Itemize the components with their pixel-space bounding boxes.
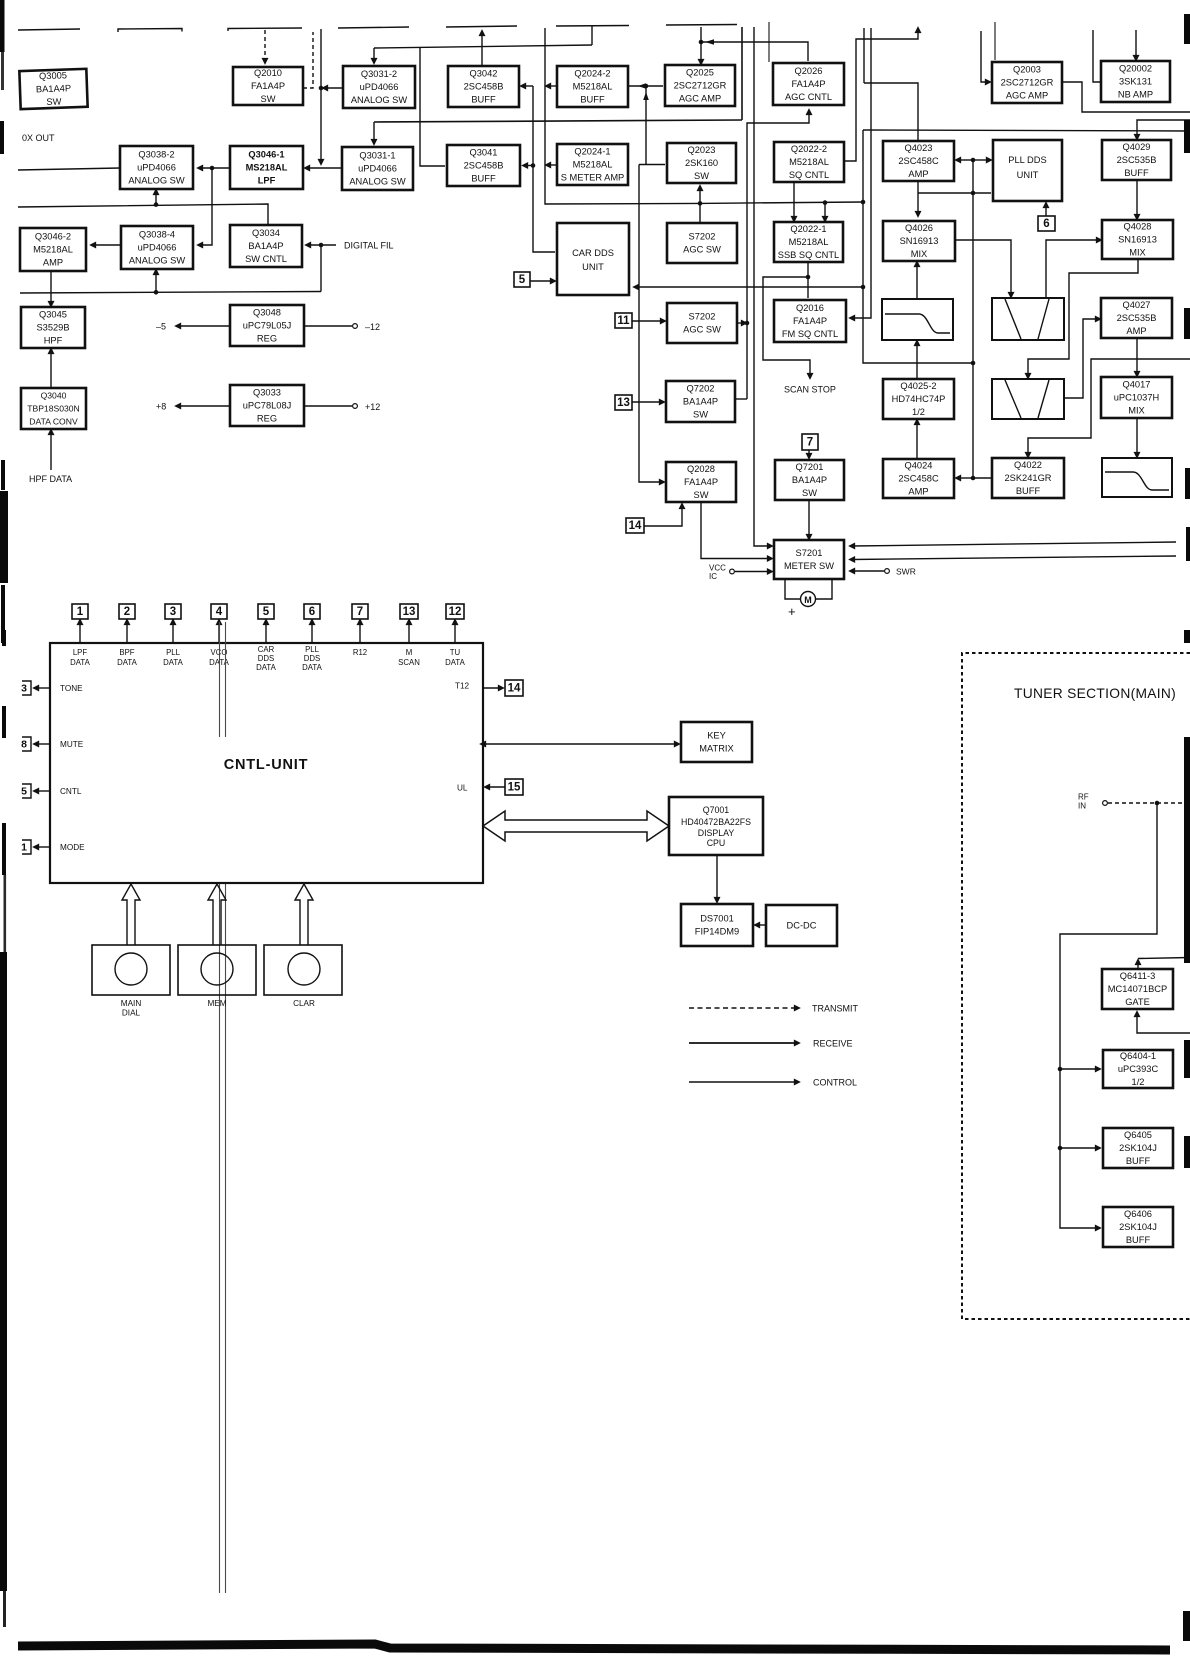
wire MUTE out xyxy=(36,743,50,745)
junction x212 y168 xyxy=(210,166,215,171)
scan mark right 8 xyxy=(1184,1040,1190,1078)
wire L1 up at x742 xyxy=(741,27,743,120)
svg-text:RECEIVE: RECEIVE xyxy=(813,1039,853,1049)
svg-text:Q2024-2: Q2024-2 xyxy=(574,68,610,78)
wire branch down to Q3038-4 right xyxy=(200,168,212,245)
hollow arrow MAIN/DIAL xyxy=(122,884,140,945)
svg-text:MODE: MODE xyxy=(60,843,85,852)
block Q2003 AGC amp xyxy=(992,62,1062,103)
svg-text:GATE: GATE xyxy=(1125,997,1150,1007)
wire -12 input xyxy=(304,325,352,327)
wire pin 13 up arrow xyxy=(408,622,410,643)
svg-text:uPD4066: uPD4066 xyxy=(138,242,177,252)
svg-text:–12: –12 xyxy=(365,322,380,332)
wire +12 input xyxy=(304,405,352,407)
wire right edge into Q4029 xyxy=(1137,120,1190,137)
svg-text:Q4028: Q4028 xyxy=(1124,221,1152,231)
block KEY MATRIX xyxy=(681,722,752,762)
ref 3 top xyxy=(165,604,181,619)
svg-text:12: 12 xyxy=(449,606,462,618)
wire 13 into Q7202 xyxy=(632,401,662,403)
wire torn top bus seg5 xyxy=(446,26,517,27)
wire Q2022-2 down to Q2022-1 xyxy=(793,182,795,219)
block Q3031-1 analog switch xyxy=(342,147,413,190)
svg-text:uPD4066: uPD4066 xyxy=(137,162,176,172)
svg-text:DATA: DATA xyxy=(117,658,137,667)
svg-text:2SK160: 2SK160 xyxy=(685,158,718,168)
ref 12 top xyxy=(446,604,464,619)
wire into Q20002 left xyxy=(1093,30,1101,82)
svg-text:BUFF: BUFF xyxy=(1126,1235,1151,1245)
svg-text:CPU: CPU xyxy=(707,838,726,848)
svg-text:M5218AL: M5218AL xyxy=(33,244,73,254)
svg-text:M5218AL: M5218AL xyxy=(789,157,829,167)
wire pin 7 up arrow xyxy=(359,622,361,643)
wire Q4027 down to Q4017 xyxy=(1136,338,1138,374)
block Q4027 amp xyxy=(1101,298,1172,338)
block Q7001 display CPU xyxy=(669,797,763,855)
svg-text:DISPLAY: DISPLAY xyxy=(698,828,735,838)
svg-text:Q4022: Q4022 xyxy=(1014,460,1042,470)
wire stub x864 xyxy=(863,28,865,83)
scan mark left 6 xyxy=(2,706,6,738)
connector stub CNTL xyxy=(22,784,31,798)
ref 1 top xyxy=(72,604,88,619)
block DC-DC converter xyxy=(766,905,837,946)
svg-text:TRANSMIT: TRANSMIT xyxy=(812,1004,859,1014)
block Q2026 AGC control xyxy=(773,63,844,105)
svg-text:UNIT: UNIT xyxy=(1017,170,1039,180)
ref 6 xyxy=(1038,216,1055,231)
wire Q3031-1 to Q3046-1 xyxy=(307,167,342,169)
svg-text:Q7201: Q7201 xyxy=(796,462,824,472)
svg-text:BUFF: BUFF xyxy=(1124,168,1149,178)
svg-text:1/2: 1/2 xyxy=(912,407,925,417)
wire x646 down xyxy=(645,86,647,165)
junction x646 y86 xyxy=(644,84,649,89)
svg-text:Q4017: Q4017 xyxy=(1123,379,1151,389)
block S7202 AGC switch upper xyxy=(667,223,737,263)
svg-text:Q2010: Q2010 xyxy=(254,68,282,78)
svg-text:15: 15 xyxy=(508,782,521,794)
wire net E vertical x747 xyxy=(747,112,809,399)
block Q7202 switch xyxy=(666,381,735,422)
svg-text:1: 1 xyxy=(77,606,84,618)
svg-text:DATA CONV: DATA CONV xyxy=(29,416,78,426)
wire Q7201 down to S7201 xyxy=(808,500,810,537)
scan mark left 2 xyxy=(1,460,5,490)
svg-text:CAR DDS: CAR DDS xyxy=(572,248,614,258)
block Q3041 buffer xyxy=(447,145,520,186)
block Q4028 mixer xyxy=(1102,220,1173,259)
wire dashed Q2010 right to top xyxy=(303,32,313,88)
block Q2024-2 buffer xyxy=(557,66,628,107)
wire up into Q3038-2 bottom xyxy=(155,192,157,205)
svg-text:Q3040: Q3040 xyxy=(41,390,67,400)
svg-text:DATA: DATA xyxy=(302,663,322,672)
wire 6 up into PLL DDS xyxy=(1045,205,1047,216)
svg-text:Q2028: Q2028 xyxy=(687,464,715,474)
svg-text:2SC458B: 2SC458B xyxy=(464,160,504,170)
svg-text:LPF: LPF xyxy=(258,175,276,185)
wire trap2 to Q4027 xyxy=(1064,319,1098,398)
wire scan stop branch xyxy=(763,277,810,376)
svg-text:Q7001: Q7001 xyxy=(703,805,730,815)
block CAR DDS unit xyxy=(557,223,629,295)
svg-text:DATA: DATA xyxy=(70,658,90,667)
svg-text:MUTE: MUTE xyxy=(60,740,84,749)
block Q4024 amp xyxy=(883,459,954,498)
wire x973 vertical xyxy=(972,160,974,478)
wire stub x871 down to Q2016 xyxy=(852,28,871,318)
svg-text:Q4024: Q4024 xyxy=(905,460,933,470)
wire Q2024-1 output into net H xyxy=(548,164,557,166)
svg-text:HD74HC74P: HD74HC74P xyxy=(892,394,946,404)
scan mark right 10 xyxy=(1183,1611,1190,1641)
svg-text:MIX: MIX xyxy=(1129,247,1146,257)
wire Q4025-2 up to filter xyxy=(916,343,918,379)
svg-text:BUFF: BUFF xyxy=(1126,1156,1151,1166)
wire into Q3041 right edge xyxy=(525,165,533,167)
svg-text:AMP: AMP xyxy=(1126,326,1146,336)
ref 14 right xyxy=(505,680,523,696)
wire y47 horizontal xyxy=(374,45,592,48)
svg-text:FIP14DM9: FIP14DM9 xyxy=(695,926,739,936)
tuner section dashed border xyxy=(962,653,1190,1319)
terminal RF IN xyxy=(1103,801,1108,806)
wire x533 vertical xyxy=(533,86,555,252)
svg-text:AMP: AMP xyxy=(908,169,928,179)
wire digital fil into Q3034 xyxy=(308,244,336,246)
wire 15 into UL xyxy=(487,786,505,788)
svg-text:MATRIX: MATRIX xyxy=(699,743,733,753)
svg-text:uPC393C: uPC393C xyxy=(1118,1064,1159,1074)
ref 14 lower xyxy=(626,518,644,533)
wire -5 output xyxy=(178,325,230,327)
wire into Q2025 top xyxy=(700,42,702,62)
ref 7 xyxy=(802,434,818,450)
svg-text:2SC458C: 2SC458C xyxy=(898,473,939,483)
svg-text:Q6405: Q6405 xyxy=(1124,1130,1152,1140)
block CNTL-UNIT xyxy=(50,643,483,883)
svg-text:T12: T12 xyxy=(455,682,470,691)
svg-text:Q6411-3: Q6411-3 xyxy=(1120,971,1156,981)
svg-text:8: 8 xyxy=(21,739,27,751)
junction net H x700 xyxy=(698,201,703,206)
svg-text:AGC AMP: AGC AMP xyxy=(679,93,721,103)
svg-text:Q6406: Q6406 xyxy=(1124,1209,1152,1219)
junction L2 x973 y363 xyxy=(971,361,976,366)
svg-text:6: 6 xyxy=(309,606,315,618)
svg-text:Q3031-2: Q3031-2 xyxy=(361,69,397,79)
svg-text:TU: TU xyxy=(450,648,461,657)
block Q4017 mixer xyxy=(1101,377,1172,418)
wire Q2022-1 down to Q2016 xyxy=(807,262,809,298)
wire CNTL out xyxy=(36,790,50,792)
hollow arrow CLAR xyxy=(295,884,313,945)
scan artifact line a xyxy=(219,622,221,737)
svg-text:MEM: MEM xyxy=(207,999,226,1008)
ref 13 xyxy=(615,395,632,410)
wire HPF DATA up to Q3040 xyxy=(50,432,52,470)
wire branch into Q6405 xyxy=(1060,1147,1098,1149)
terminal -12 xyxy=(353,324,358,329)
svg-text:TONE: TONE xyxy=(60,684,83,693)
wire trap1 up to Q4028 xyxy=(1046,240,1099,298)
wire down into S7202 upper top xyxy=(699,203,701,222)
svg-text:HPF DATA: HPF DATA xyxy=(29,474,72,484)
svg-text:S7201: S7201 xyxy=(796,548,823,558)
legend transmit arrow xyxy=(689,1007,797,1009)
svg-text:Q2003: Q2003 xyxy=(1013,64,1041,74)
wire right edge into Q6411-3 bottom xyxy=(1137,1014,1190,1033)
wire Q4023 down to Q4026 xyxy=(917,181,919,214)
wire pin 2 up arrow xyxy=(126,622,128,643)
block Q6404-1 comparator xyxy=(1103,1050,1173,1088)
scan mark left 3 xyxy=(0,491,8,583)
svg-text:3: 3 xyxy=(21,683,27,695)
block Q4022 buffer xyxy=(992,458,1064,498)
svg-text:DDS: DDS xyxy=(304,654,320,663)
svg-text:–5: –5 xyxy=(156,322,166,332)
svg-text:Q3046-1: Q3046-1 xyxy=(248,149,284,159)
svg-text:AGC AMP: AGC AMP xyxy=(1006,90,1048,100)
scan mark right 5 xyxy=(1186,527,1190,561)
wire L1 down into Q3031-1 top xyxy=(373,122,375,142)
svg-text:HPF: HPF xyxy=(44,335,63,345)
svg-text:BUFF: BUFF xyxy=(1016,486,1041,496)
svg-text:Q2026: Q2026 xyxy=(795,66,823,76)
svg-text:MC14071BCP: MC14071BCP xyxy=(1108,984,1167,994)
svg-text:METER SW: METER SW xyxy=(784,561,834,571)
block Q2010 switch xyxy=(233,67,303,105)
svg-text:BUFF: BUFF xyxy=(471,94,496,104)
wire 5 into CAR DDS xyxy=(530,280,553,282)
svg-text:M: M xyxy=(804,595,812,605)
wire x646 into Q2023 left xyxy=(639,164,665,166)
filter response block lower right xyxy=(1102,458,1172,497)
wire Q4023 PLL link right xyxy=(973,159,989,161)
wire Q6411-3 top line xyxy=(1138,958,1190,959)
svg-text:2SK104J: 2SK104J xyxy=(1119,1143,1157,1153)
svg-text:Q3048: Q3048 xyxy=(253,307,281,317)
block Q7201 switch xyxy=(775,460,844,500)
svg-text:6: 6 xyxy=(1043,218,1049,230)
wire pin 12 up arrow xyxy=(454,622,456,643)
svg-text:13: 13 xyxy=(617,397,630,409)
svg-text:MS218AL: MS218AL xyxy=(246,162,288,172)
svg-text:CLAR: CLAR xyxy=(293,999,315,1008)
svg-text:2SC458B: 2SC458B xyxy=(464,81,504,91)
wire Q4029 down to Q4028 xyxy=(1136,180,1138,217)
block Q2022-1 SSB squelch control xyxy=(774,222,843,262)
svg-text:FA1A4P: FA1A4P xyxy=(791,79,825,89)
svg-text:BA1A4P: BA1A4P xyxy=(792,475,827,485)
ref 5 top xyxy=(258,604,274,619)
svg-text:ANALOG SW: ANALOG SW xyxy=(129,255,186,265)
wire Q6411-3 top arrow xyxy=(1137,962,1139,969)
wire up into Q3038-4 bottom xyxy=(155,272,157,292)
svg-text:SCAN STOP: SCAN STOP xyxy=(784,385,836,395)
svg-text:M5218AL: M5218AL xyxy=(573,81,613,91)
wire pin 4 up arrow xyxy=(218,622,220,643)
block Q4023 amp xyxy=(883,141,954,181)
block Q3046-1 LPF xyxy=(230,146,303,189)
wire DC-DC into DS7001 xyxy=(757,924,766,926)
block Q4029 buffer xyxy=(1102,140,1171,180)
svg-text:Q20002: Q20002 xyxy=(1119,63,1152,73)
junction x533 y165 xyxy=(531,163,536,168)
wire TONE out xyxy=(36,687,50,689)
junction tuner branch 2 xyxy=(1058,1146,1063,1151)
ref 4 top xyxy=(211,604,227,619)
wire net D Q2022-2 up xyxy=(844,30,918,161)
wire stub x995 xyxy=(994,22,996,60)
block Q3005 switch xyxy=(19,69,87,109)
svg-text:2SC458C: 2SC458C xyxy=(898,156,939,166)
svg-text:DDS: DDS xyxy=(258,654,274,663)
block Q20002 noise blanker amp xyxy=(1101,61,1170,102)
arrowhead into Q2024-2 xyxy=(638,83,646,89)
terminal VCC IC xyxy=(730,569,735,574)
wire Q2024-2 output into x545 net xyxy=(548,85,557,87)
wire Q2003 wrap to right edge xyxy=(1062,82,1190,112)
svg-text:Q6404-1: Q6404-1 xyxy=(1120,1051,1156,1061)
junction net H x863 xyxy=(861,200,866,205)
svg-text:PLL DDS: PLL DDS xyxy=(1008,155,1046,165)
wire x639 vertical down to Q2028 xyxy=(639,165,662,483)
block Q6405 buffer xyxy=(1103,1128,1173,1168)
scan artifact line b xyxy=(225,622,227,737)
svg-text:4: 4 xyxy=(216,606,223,618)
svg-text:NB AMP: NB AMP xyxy=(1118,89,1153,99)
wire dashed into Q2010 top xyxy=(264,30,266,61)
block Q6406 buffer xyxy=(1103,1207,1173,1247)
scan mark left 4 xyxy=(1,585,5,643)
svg-text:Q3046-2: Q3046-2 xyxy=(35,231,71,241)
svg-text:RF: RF xyxy=(1078,793,1089,802)
junction x321 y88 xyxy=(319,86,324,91)
wire RF IN dashed xyxy=(1108,802,1190,804)
legend control arrow xyxy=(689,1081,797,1083)
wire Q4017 down to filter xyxy=(1136,418,1138,455)
wire torn top bus seg4 xyxy=(338,27,409,28)
wire Q7202 output xyxy=(735,398,747,400)
wire 11 into S7202 lower xyxy=(632,320,663,322)
wire Q3040 up to Q3045 xyxy=(50,351,52,388)
svg-text:PLL: PLL xyxy=(305,645,320,654)
arrowhead left into junction x701 xyxy=(705,39,714,45)
junction bus x825 xyxy=(823,200,828,205)
wire into Q2003 left xyxy=(981,31,988,82)
svg-text:1: 1 xyxy=(21,842,27,854)
svg-text:13: 13 xyxy=(403,606,416,618)
wire input line to Q3038-2 xyxy=(18,168,120,170)
connector stub TONE xyxy=(22,681,31,695)
wire Q3046-2 down to Q3045 xyxy=(50,271,52,304)
svg-text:SW CNTL: SW CNTL xyxy=(245,254,287,264)
wire L2 branch to CAR DDS xyxy=(636,286,863,288)
svg-text:+12: +12 xyxy=(365,402,380,412)
svg-text:Q2022-2: Q2022-2 xyxy=(791,144,827,154)
block DS7001 display xyxy=(681,904,753,946)
control MAIN/DIAL box xyxy=(92,945,170,995)
svg-text:5: 5 xyxy=(263,606,270,618)
page top-left corner mark xyxy=(0,0,5,52)
svg-text:SW: SW xyxy=(802,488,817,498)
svg-text:3: 3 xyxy=(170,606,176,618)
wire torn top bus seg6 xyxy=(556,25,629,28)
wire filter up to Q4026 xyxy=(916,264,918,299)
svg-text:14: 14 xyxy=(629,520,642,532)
wire Q2028 down to S7201 xyxy=(701,502,770,559)
svg-text:FM SQ CNTL: FM SQ CNTL xyxy=(782,329,838,339)
wire Q3038-4 to Q3046-2 xyxy=(93,244,121,246)
svg-text:S3529B: S3529B xyxy=(36,322,69,332)
svg-text:LPF: LPF xyxy=(73,648,88,657)
ref 11 xyxy=(615,313,632,328)
svg-text:MAIN: MAIN xyxy=(121,999,142,1008)
arrowhead up toward junction x646 xyxy=(643,92,649,100)
svg-text:11: 11 xyxy=(617,315,630,327)
control MEM knob xyxy=(201,953,233,985)
svg-text:2: 2 xyxy=(124,606,130,618)
svg-text:S METER AMP: S METER AMP xyxy=(561,172,625,182)
wire T12 to 14 xyxy=(483,687,501,689)
wire stub x769 xyxy=(768,22,770,62)
svg-text:CNTL: CNTL xyxy=(60,787,82,796)
svg-text:CONTROL: CONTROL xyxy=(813,1078,857,1088)
svg-text:DC-DC: DC-DC xyxy=(787,920,817,930)
svg-text:Q3034: Q3034 xyxy=(252,228,280,238)
svg-text:CNTL-UNIT: CNTL-UNIT xyxy=(224,757,309,773)
wire torn top bus seg3 xyxy=(228,28,302,31)
svg-text:2SC535B: 2SC535B xyxy=(1117,155,1157,165)
block Q3034 switch control xyxy=(230,225,302,267)
terminal SWR xyxy=(885,569,890,574)
svg-text:uPD4066: uPD4066 xyxy=(358,163,397,173)
svg-text:DATA: DATA xyxy=(256,663,276,672)
bandpass filter block upper xyxy=(992,298,1064,340)
svg-text:REG: REG xyxy=(257,333,277,343)
svg-text:BUFF: BUFF xyxy=(580,94,605,104)
junction x321 y245 xyxy=(319,243,324,248)
wire top link to Q2026 xyxy=(701,42,808,61)
svg-text:SCAN: SCAN xyxy=(398,658,420,667)
scan artifact line c xyxy=(219,884,221,1593)
wire +8 output xyxy=(178,405,230,407)
scan mark right 6 xyxy=(1184,630,1190,643)
svg-text:Q3033: Q3033 xyxy=(253,387,281,397)
junction x156 y204 xyxy=(154,202,159,207)
block Q3042 buffer xyxy=(448,66,519,107)
svg-text:IN: IN xyxy=(1078,802,1086,811)
wire vertical bus x321 xyxy=(320,29,322,162)
block Q3048 regulator xyxy=(230,305,304,346)
wire pin 1 up arrow xyxy=(79,622,81,643)
wire S7202 lower output xyxy=(737,322,744,324)
wire pin 6 up arrow xyxy=(311,622,313,643)
svg-text:AGC SW: AGC SW xyxy=(683,244,721,254)
svg-text:KEY: KEY xyxy=(707,730,726,740)
junction x973 y160 xyxy=(971,158,976,163)
wire right line2 into S7201 xyxy=(852,556,1176,560)
svg-text:14: 14 xyxy=(508,683,521,695)
svg-text:BA1A4P: BA1A4P xyxy=(36,83,71,94)
svg-text:Q2023: Q2023 xyxy=(688,145,716,155)
svg-text:2SC535B: 2SC535B xyxy=(1117,313,1157,323)
svg-text:SSB SQ CNTL: SSB SQ CNTL xyxy=(778,250,839,260)
